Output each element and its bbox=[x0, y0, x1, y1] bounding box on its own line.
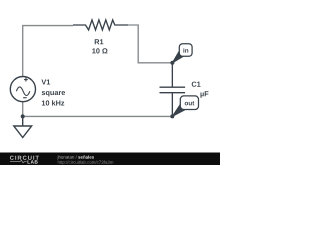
V1 value 10 kHz bbox=[42, 100, 64, 105]
footer logo trace squiggle bbox=[10, 160, 27, 163]
junction dot ground node bbox=[21, 114, 25, 118]
label R1 bbox=[95, 39, 104, 44]
footer circuit title user bbox=[57, 155, 76, 159]
capacitor C1 bbox=[160, 63, 186, 117]
value 10 Ohm bbox=[92, 48, 107, 53]
footer circuit title name bbox=[78, 155, 94, 158]
wire from R1 right lead to node in bbox=[128, 25, 172, 63]
junction dot node in bbox=[170, 61, 174, 65]
V1 minus polarity mark bbox=[23, 97, 27, 99]
V1 plus polarity mark bbox=[24, 78, 28, 82]
footer url bbox=[58, 161, 113, 165]
node out flag bbox=[172, 96, 198, 117]
wire from V1 top terminal to R1 left lead bbox=[23, 26, 73, 77]
V1 type square bbox=[42, 91, 65, 96]
value uF bbox=[200, 91, 208, 98]
label V1 bbox=[41, 79, 50, 84]
footer bar bbox=[0, 153, 220, 166]
node in flag bbox=[172, 44, 192, 63]
wire ground rail from V1 bottom to node out bbox=[23, 101, 173, 116]
footer logo LAB bbox=[28, 160, 38, 163]
resistor R1 bbox=[73, 20, 128, 30]
voltage source V1 bbox=[10, 77, 35, 102]
junction dot node out bbox=[170, 114, 174, 118]
ground bbox=[14, 116, 32, 137]
label C1 bbox=[192, 82, 201, 87]
footer CircuitLab logo CIRCUIT bbox=[10, 156, 39, 160]
